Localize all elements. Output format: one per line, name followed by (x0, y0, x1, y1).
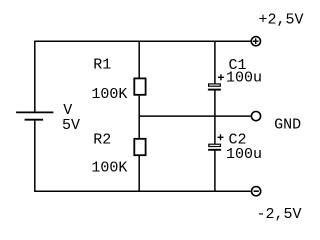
svg-text:GND: GND (274, 117, 301, 134)
svg-text:100u: 100u (226, 70, 262, 87)
svg-text:+2,5V: +2,5V (259, 12, 304, 29)
svg-text:100K: 100K (91, 160, 127, 177)
svg-text:100K: 100K (91, 86, 127, 103)
svg-text:-2,5V: -2,5V (257, 206, 302, 223)
svg-text:5V: 5V (62, 117, 80, 134)
svg-text:R2: R2 (93, 132, 111, 149)
svg-text:100u: 100u (226, 146, 262, 163)
svg-text:R1: R1 (93, 57, 111, 74)
